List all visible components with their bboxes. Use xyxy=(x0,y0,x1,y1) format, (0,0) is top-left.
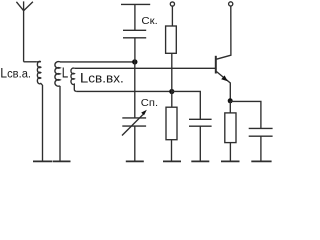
transistor VT1 collector xyxy=(217,6,231,59)
wire Rэ to ground xyxy=(229,143,231,161)
supply terminal (collector) xyxy=(229,2,233,6)
wire R2 to ground xyxy=(171,140,173,161)
ground (C1) xyxy=(191,160,209,162)
inductor Lсв.а xyxy=(37,61,43,85)
wire emitter node to capacitor C2 xyxy=(230,101,261,128)
capacitor Ск xyxy=(123,30,146,38)
wire node B to capacitor C1 xyxy=(172,91,201,119)
node A junction dot xyxy=(132,59,137,64)
emitter arrow xyxy=(221,75,228,81)
resistor Rэ xyxy=(225,113,236,143)
svg-text:Ск.: Ск. xyxy=(141,16,157,27)
ground (tank coil) xyxy=(53,160,71,162)
transistor VT1 emitter xyxy=(216,72,230,101)
wire L top to node A (tank top) xyxy=(60,61,135,63)
supply terminal (R1) xyxy=(170,2,174,6)
wire node B to R2 xyxy=(171,91,173,107)
variable capacitor Сп xyxy=(122,110,147,136)
inductor L xyxy=(55,62,60,87)
svg-text:Lсв.а.: Lсв.а. xyxy=(0,65,31,81)
wire terminal bar to Ск xyxy=(134,4,136,30)
inductor Lсв.вх xyxy=(71,68,76,91)
transistor VT1 base bar xyxy=(215,56,217,74)
node C junction dot (emitter) xyxy=(228,98,233,103)
wire Lсв.а bottom to ground xyxy=(42,85,44,161)
svg-text:L: L xyxy=(62,64,69,81)
wire Lсв.вх top to transistor base xyxy=(74,67,215,69)
wire C1 to ground xyxy=(199,126,201,161)
antenna terminal bar (capacitive coupling input) xyxy=(121,3,150,5)
capacitor C1 (base bypass) xyxy=(189,119,212,126)
node B junction dot xyxy=(169,89,174,94)
resistor R1 xyxy=(166,26,177,53)
ground (C2) xyxy=(251,160,271,162)
wire C2 to ground xyxy=(260,136,262,161)
ground (R2) xyxy=(163,160,181,162)
ground (Rэ) xyxy=(221,160,240,162)
ground (antenna coil) xyxy=(33,160,52,162)
antenna WA1 xyxy=(16,1,33,61)
wire node A to Сп xyxy=(134,62,136,118)
wire Ск to node A xyxy=(134,38,136,62)
capacitor C2 (emitter bypass) xyxy=(249,128,273,136)
wire terminal to R1 xyxy=(171,6,173,26)
wire L bottom to ground xyxy=(59,86,61,161)
wire antenna to Lсв.а top xyxy=(24,61,37,63)
wire R1 to node B (crosses base wire, no junction) xyxy=(171,53,173,91)
resistor R2 xyxy=(166,107,177,140)
wire Сп to ground xyxy=(134,126,136,161)
svg-text:Сп.: Сп. xyxy=(141,97,158,109)
svg-text:Lсв.вх.: Lсв.вх. xyxy=(80,71,124,87)
ground (tuning capacitor) xyxy=(126,160,144,162)
wire emitter node to Rэ xyxy=(229,101,231,113)
wire Lсв.вх bottom to node B xyxy=(76,90,172,92)
